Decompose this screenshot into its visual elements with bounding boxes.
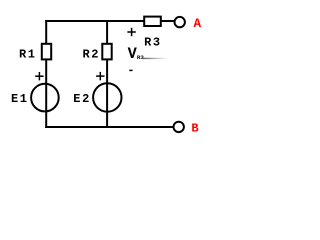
source E1 <box>31 84 59 112</box>
VR3 minus sign <box>129 69 132 71</box>
terminal A <box>175 17 185 27</box>
svg-text:R1: R1 <box>19 48 37 62</box>
svg-text:R3: R3 <box>144 36 162 50</box>
svg-text:E1: E1 <box>11 92 29 106</box>
wire top horizontal <box>45 20 175 22</box>
svg-text:R3: R3 <box>137 54 144 61</box>
svg-text:B: B <box>191 122 198 136</box>
wire left branch vertical <box>45 20 47 128</box>
wire right branch vertical <box>106 21 108 128</box>
VR3 plus sign <box>127 28 135 36</box>
source E1 plus sign <box>35 72 43 80</box>
svg-text:E2: E2 <box>73 92 91 106</box>
svg-text:A: A <box>194 17 202 31</box>
terminal B <box>174 122 184 132</box>
resistor R1 <box>42 44 51 60</box>
resistor R3 <box>144 17 161 26</box>
wire bottom horizontal <box>45 126 174 128</box>
svg-text:R2: R2 <box>83 48 101 62</box>
resistor R2 <box>102 44 111 60</box>
source E2 <box>93 83 121 111</box>
source E2 plus sign <box>96 72 104 80</box>
